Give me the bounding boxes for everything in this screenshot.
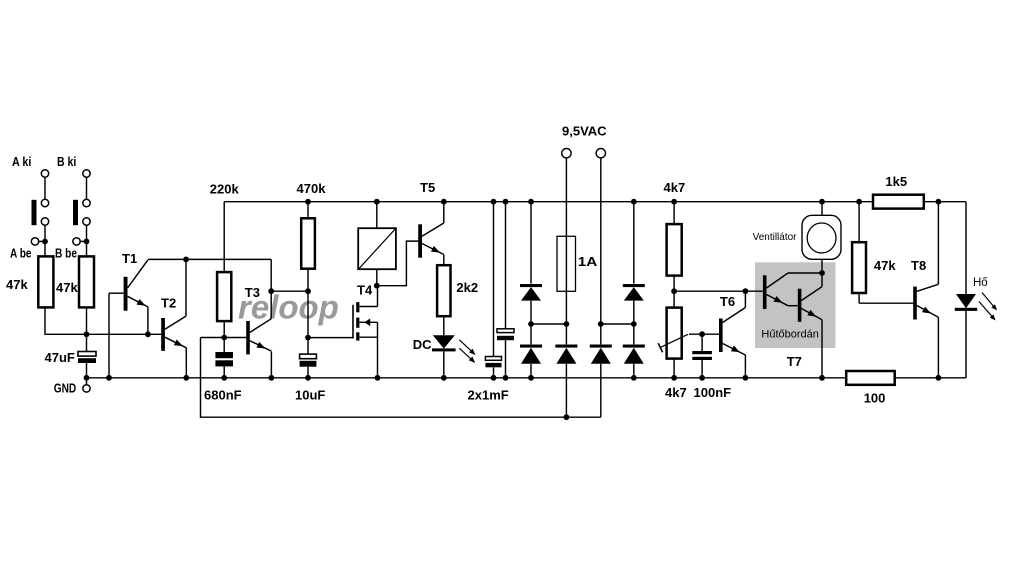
svg-text:47k: 47k — [874, 258, 896, 273]
capacitor 100nF — [701, 334, 703, 351]
node T3 emitter at ground rail — [269, 375, 275, 381]
wire T3 base — [201, 337, 247, 339]
node cap2 top — [503, 199, 509, 205]
node 4k7 top — [671, 199, 677, 205]
svg-text:1A: 1A — [578, 254, 598, 269]
svg-text:Hő: Hő — [973, 277, 988, 289]
svg-text:100nF: 100nF — [694, 385, 732, 400]
svg-text:T3: T3 — [245, 285, 260, 300]
transistor T3 — [246, 321, 250, 354]
trimmer 4k7 — [667, 308, 682, 359]
wire AC left upper — [565, 158, 567, 345]
node 220k / T3 base / 680nF — [221, 335, 227, 341]
node T2 emitter at ground rail — [183, 375, 189, 381]
terminal AC right — [596, 149, 605, 158]
node trimmer at ground rail — [671, 375, 677, 381]
node 4k7 mid — [671, 288, 677, 294]
fan Ventillátor symbol — [802, 215, 841, 259]
node bridge right at ground rail — [631, 375, 637, 381]
node A input junction — [42, 239, 48, 245]
wire A be link — [38, 240, 45, 242]
svg-text:47k: 47k — [6, 277, 28, 292]
svg-text:B be: B be — [55, 245, 77, 260]
wire 47k to T8 base — [859, 302, 913, 304]
node gate / 10uF — [305, 335, 311, 341]
node 100nF top — [699, 331, 705, 337]
svg-text:T7: T7 — [787, 354, 802, 369]
node 10uF at ground rail — [305, 375, 311, 381]
wire 470k to gate node — [307, 291, 309, 337]
switch A actuator bar — [32, 200, 37, 225]
node DC led at ground rail — [441, 375, 447, 381]
svg-text:Hűtőbordán: Hűtőbordán — [761, 329, 819, 341]
node mid left b — [564, 321, 570, 327]
svg-text:9,5VAC: 9,5VAC — [562, 123, 607, 138]
wire bridge mid left — [531, 323, 566, 325]
wire T1/T2 collector bus — [148, 258, 271, 260]
svg-text:47k: 47k — [56, 280, 78, 295]
node T5 collector at rail — [441, 199, 447, 205]
terminal A be — [31, 238, 38, 245]
node 1k5 left — [856, 199, 862, 205]
switch A lower contact — [41, 218, 48, 225]
node T1 emitter at bias wire — [145, 331, 151, 337]
transistor T7b — [798, 289, 802, 322]
node T4 drain / opto / T5 base — [374, 283, 380, 289]
terminal A ki — [41, 170, 48, 177]
wire rail right drop — [965, 202, 967, 294]
node T6 emitter at ground rail — [743, 375, 749, 381]
resistor 100 — [846, 371, 895, 385]
node bridge left at ground rail — [528, 375, 534, 381]
node 100nF at ground rail — [699, 375, 705, 381]
svg-text:T6: T6 — [720, 294, 735, 309]
resistor 2k2 — [437, 265, 450, 316]
wire T4 source to ground rail — [377, 322, 379, 378]
node T8 emitter at ground rail — [936, 375, 942, 381]
LED Hő — [956, 294, 976, 308]
wire opto box to drain node — [376, 269, 378, 286]
svg-text:100: 100 — [864, 391, 886, 406]
heatsink box Hűtőbordán — [755, 262, 836, 348]
diode bridge D1 (left up) — [530, 202, 532, 284]
svg-text:2x1mF: 2x1mF — [468, 388, 509, 403]
wire T1 base to ground — [108, 293, 110, 378]
svg-text:T1: T1 — [122, 251, 137, 266]
wire 2k2 to DC led — [443, 316, 445, 335]
wire collector bus down to 470k node — [270, 259, 272, 291]
switch B upper contact — [83, 199, 90, 206]
node cap1 bottom — [491, 375, 497, 381]
svg-text:B ki: B ki — [57, 154, 76, 169]
transistor T5 — [418, 224, 422, 257]
svg-text:680nF: 680nF — [204, 388, 242, 403]
transistor T1 — [124, 277, 128, 311]
wire T5 base — [377, 241, 419, 286]
node mid left a — [528, 321, 534, 327]
fuse 1A — [557, 236, 576, 291]
terminal AC left — [562, 149, 571, 158]
capacitor 680nF — [215, 352, 233, 358]
svg-text:2k2: 2k2 — [456, 280, 478, 295]
node bias wire / 47uF — [84, 331, 90, 337]
resistor 470k — [307, 202, 309, 219]
wire top supply rail — [224, 201, 966, 203]
wire bottom ground rail — [87, 377, 967, 379]
wire fan to T7 collectors — [821, 259, 823, 273]
svg-text:A ki: A ki — [12, 154, 31, 169]
node T6 collector — [743, 288, 749, 294]
svg-text:4k7: 4k7 — [664, 180, 686, 195]
node B input junction — [84, 239, 90, 245]
transistor T8 — [913, 287, 917, 320]
resistor 47k right — [858, 202, 860, 243]
svg-text:T8: T8 — [911, 258, 926, 273]
svg-text:DC: DC — [413, 337, 432, 352]
wire B ki to switch — [86, 177, 88, 200]
node T1 base at ground rail — [106, 375, 112, 381]
node T7 emitter at ground rail — [819, 375, 825, 381]
wire rail to opto box — [376, 202, 378, 229]
diode bridge D4 (series right) — [590, 345, 612, 348]
wire 47k B bottom — [86, 307, 88, 334]
switch B actuator bar — [73, 200, 78, 225]
svg-text:A be: A be — [10, 245, 32, 260]
node 470k top — [305, 199, 311, 205]
node mid right b — [631, 321, 637, 327]
resistor 4k7 — [673, 202, 675, 224]
terminal B be — [73, 238, 80, 245]
svg-text:T5: T5 — [420, 180, 435, 195]
capacitor 1mF (b) — [505, 202, 507, 329]
resistor 220k — [223, 202, 225, 272]
wire A switch to node — [44, 225, 46, 257]
wire rail to fan — [821, 202, 823, 216]
wire T7 emitter to ground rail — [821, 320, 823, 378]
transistor T4 mosfet — [352, 305, 354, 339]
svg-text:10uF: 10uF — [295, 388, 325, 403]
capacitor 1mF (a) — [493, 202, 495, 357]
node opto top — [374, 199, 380, 205]
node fan top at rail — [819, 199, 825, 205]
diode bridge D3 (series left) — [555, 345, 577, 348]
diode bridge D2 (right up) — [633, 202, 635, 284]
node AC left at loop wire — [564, 414, 570, 420]
wire trimmer wiper to T6 base — [689, 333, 719, 335]
resistor 1k5 — [873, 195, 924, 209]
svg-text:47uF: 47uF — [45, 350, 75, 365]
svg-text:470k: 470k — [297, 181, 327, 196]
svg-text:4k7: 4k7 — [665, 385, 687, 400]
switch B lower contact — [83, 218, 90, 225]
node bridge left top — [528, 199, 534, 205]
diode bridge D6 (right low) — [623, 345, 645, 348]
wire bridge mid right — [601, 323, 634, 325]
svg-text:T4: T4 — [357, 283, 373, 298]
opto-isolator box — [358, 228, 396, 269]
node T4 source at ground rail — [375, 375, 381, 381]
capacitor 10uF — [307, 338, 309, 355]
node cap2 bottom — [503, 375, 509, 381]
wire AC right — [600, 158, 602, 345]
wire A ki to switch — [44, 177, 46, 200]
wire gate node to T4 gate — [308, 337, 353, 339]
node 680nF at ground rail — [221, 375, 227, 381]
switch A upper contact — [41, 199, 48, 206]
node cap1 top — [491, 199, 497, 205]
wire feedback loop left — [201, 338, 601, 418]
svg-text:T2: T2 — [161, 296, 176, 311]
wire B switch to node — [86, 225, 88, 257]
node T2 collector — [183, 257, 189, 263]
terminal GND — [86, 378, 88, 385]
wire B be link — [80, 240, 87, 242]
node T3 collector / 470k — [268, 288, 274, 294]
node 470k bottom — [305, 288, 311, 294]
node 1k5 right — [936, 199, 942, 205]
node bridge right top — [631, 199, 637, 205]
transistor T6 — [719, 319, 723, 353]
diode bridge D5 (left low) — [520, 345, 542, 348]
resistor 47k (B) — [79, 256, 94, 307]
svg-text:1k5: 1k5 — [885, 174, 907, 189]
wire T7 base bus — [674, 290, 763, 292]
resistor 47k (A) — [38, 256, 53, 307]
transistor T7a — [763, 275, 767, 309]
LED DC — [433, 335, 455, 348]
node 47uF at ground rail — [84, 375, 90, 381]
svg-text:Ventillátor: Ventillátor — [753, 232, 798, 243]
node fan bottom / collectors — [819, 270, 825, 276]
wire 47k A bottom to bias wire — [45, 307, 161, 334]
LED Hő emission arrows — [982, 293, 996, 310]
LED DC emission arrows — [459, 340, 472, 352]
capacitor 47uF — [86, 334, 88, 351]
node mid right a — [598, 321, 604, 327]
transistor T2 — [161, 318, 165, 351]
svg-text:220k: 220k — [210, 182, 240, 197]
svg-text:GND: GND — [54, 381, 76, 396]
wire T3 collector to 470k column — [271, 290, 308, 292]
terminal B ki — [83, 170, 90, 177]
